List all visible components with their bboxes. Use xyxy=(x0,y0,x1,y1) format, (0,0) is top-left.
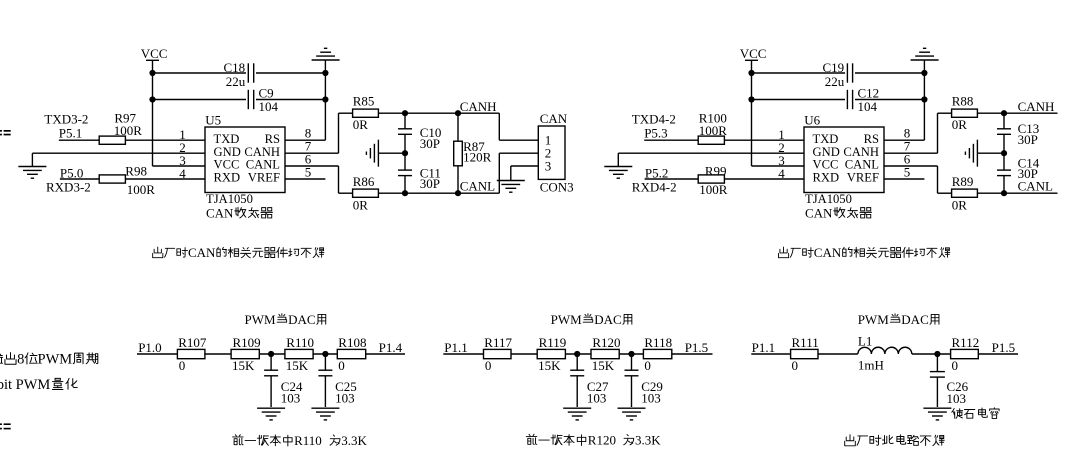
svg-text:DAC: DAC xyxy=(288,312,315,327)
junction xyxy=(748,70,754,76)
wire RXD input (pin 4) xyxy=(645,178,804,180)
ground xyxy=(563,408,591,420)
svg-text:DAC: DAC xyxy=(901,312,928,327)
svg-text:15K: 15K xyxy=(286,358,309,373)
svg-text:VCC: VCC xyxy=(214,158,240,172)
capacitor C12 xyxy=(845,86,879,114)
svg-text:TXD4-2: TXD4-2 xyxy=(632,112,676,127)
capacitor C27 xyxy=(570,354,609,407)
inductor L1 xyxy=(858,333,912,372)
wire CANL (pin 6) xyxy=(884,166,952,193)
ground xyxy=(311,408,339,420)
wire VCC to C9 xyxy=(752,99,848,101)
svg-text:R112: R112 xyxy=(952,335,980,350)
capacitor C25 xyxy=(318,354,356,407)
resistor R86 xyxy=(353,174,379,212)
svg-text:0R: 0R xyxy=(952,197,968,212)
svg-text:RXD3-2: RXD3-2 xyxy=(46,180,91,195)
svg-text:100R: 100R xyxy=(699,123,728,138)
node CANL xyxy=(460,179,495,194)
svg-text:R99: R99 xyxy=(705,163,727,178)
junction xyxy=(149,70,155,76)
resistor R88 xyxy=(952,94,978,133)
wire GND (pin 2) xyxy=(618,153,804,166)
junction xyxy=(1001,110,1007,116)
svg-text:120R: 120R xyxy=(463,149,492,164)
capacitor C11 xyxy=(398,165,441,191)
resistor R100 xyxy=(698,110,727,144)
svg-text:VCC: VCC xyxy=(740,46,767,61)
node RXD4-2 xyxy=(632,165,677,194)
svg-text:R118: R118 xyxy=(644,335,672,350)
svg-text:P1.5: P1.5 xyxy=(685,340,708,355)
capacitor C19 xyxy=(823,60,856,89)
wire VCC to C18/C9 rail top xyxy=(752,72,848,74)
svg-text:104: 104 xyxy=(259,99,279,114)
svg-text:1mH: 1mH xyxy=(858,357,884,372)
junction xyxy=(322,70,328,76)
power VCC xyxy=(141,46,168,61)
power VCC xyxy=(740,46,767,61)
resistor R89 xyxy=(952,174,978,212)
ground xyxy=(923,408,951,420)
svg-text:30P: 30P xyxy=(1018,132,1038,147)
svg-text:R107: R107 xyxy=(178,335,207,350)
svg-text:CANL: CANL xyxy=(460,179,495,194)
wire VREF stub (pin 5) xyxy=(884,178,924,180)
clipped label: 8-bit PWM period output xyxy=(0,352,98,368)
svg-text:P1.4: P1.4 xyxy=(379,340,403,355)
svg-text:RS: RS xyxy=(864,132,879,146)
ground xyxy=(257,408,285,420)
value label TJA1050 / CAN transceiver (U6) xyxy=(805,192,871,220)
junction xyxy=(455,110,461,116)
svg-text:R85: R85 xyxy=(353,94,375,109)
node TXD4-2 xyxy=(632,112,676,141)
svg-text:C19: C19 xyxy=(823,60,845,75)
svg-text:0R: 0R xyxy=(353,197,369,212)
svg-text:CAN: CAN xyxy=(805,205,833,220)
clipped mark == xyxy=(0,130,11,135)
svg-text:4: 4 xyxy=(778,166,785,181)
svg-text:P5.3: P5.3 xyxy=(644,126,667,141)
clipped mark == (lower) xyxy=(0,423,11,429)
svg-text:15K: 15K xyxy=(538,358,561,373)
wire C18 to ground rail xyxy=(254,72,326,74)
resistor R98 xyxy=(99,163,155,197)
svg-text:C18: C18 xyxy=(224,60,246,75)
wire TXD input (pin 1) xyxy=(59,139,205,141)
note: in previous version R110 was 3.3K xyxy=(233,433,368,448)
junction xyxy=(574,351,580,357)
junction xyxy=(628,351,634,357)
ground xyxy=(911,48,939,60)
node RXD3-2 xyxy=(46,165,91,194)
svg-text:0: 0 xyxy=(485,358,492,373)
junction xyxy=(268,351,274,357)
svg-text:CANH: CANH xyxy=(460,99,497,114)
svg-text:TJA1050: TJA1050 xyxy=(206,192,253,206)
clipped label: bit PWM quantisation xyxy=(0,377,77,393)
svg-text:100R: 100R xyxy=(127,182,156,197)
junction xyxy=(921,70,927,76)
wire PWM LC filter rail xyxy=(751,353,1018,355)
wire VCC stem to pin 3 xyxy=(153,60,206,166)
wire CANL node rail xyxy=(977,192,1057,194)
capacitor C9 xyxy=(246,86,279,114)
value label TJA1050 / CAN transceiver (U5) xyxy=(206,192,272,220)
svg-text:R109: R109 xyxy=(233,335,261,350)
node P1.5 xyxy=(992,340,1015,355)
svg-text:PWM: PWM xyxy=(245,312,277,327)
svg-text:R110: R110 xyxy=(286,335,314,350)
resistor R119 xyxy=(537,335,566,373)
ground xyxy=(312,48,340,60)
wire ground rail down to pin 8 (RS) xyxy=(285,60,325,140)
wire C18 to ground rail xyxy=(853,72,925,74)
wire C9 to ground rail xyxy=(254,99,326,101)
svg-text:CAN: CAN xyxy=(814,245,842,260)
value label monolithic capacitor xyxy=(952,408,999,419)
node P1.5 xyxy=(685,340,708,355)
svg-text:0R: 0R xyxy=(353,117,369,132)
svg-text:R110: R110 xyxy=(294,433,322,448)
junction xyxy=(455,190,461,196)
svg-text:PWM: PWM xyxy=(858,312,890,327)
wire TXD input (pin 1) xyxy=(644,139,804,141)
svg-text:0: 0 xyxy=(644,358,651,373)
svg-text:R98: R98 xyxy=(125,163,147,178)
svg-text:22u: 22u xyxy=(226,74,246,89)
svg-text:P1.5: P1.5 xyxy=(992,340,1015,355)
svg-text:3: 3 xyxy=(545,159,552,174)
svg-text:P1.0: P1.0 xyxy=(138,340,161,355)
resistor R85 xyxy=(353,94,379,133)
node CANH xyxy=(460,99,497,114)
svg-text:100R: 100R xyxy=(114,123,143,138)
svg-text:103: 103 xyxy=(641,391,661,406)
resistor R112 xyxy=(951,335,980,373)
svg-text:R88: R88 xyxy=(952,94,974,109)
pin numbers 8-5 of U5 xyxy=(305,126,312,180)
junction xyxy=(1001,150,1007,156)
capacitor C24 xyxy=(264,354,303,407)
note: this circuit not soldered at factory xyxy=(845,435,945,446)
svg-text:30P: 30P xyxy=(420,176,440,191)
wire mid node to ground xyxy=(977,152,1004,154)
node P1.0 xyxy=(138,340,161,355)
junction xyxy=(1001,190,1007,196)
svg-text:U6: U6 xyxy=(804,112,820,127)
svg-text:0: 0 xyxy=(792,358,799,373)
svg-text:CANL: CANL xyxy=(1018,179,1053,194)
resistor R111 xyxy=(791,335,819,373)
title PWM as DAC xyxy=(858,312,939,327)
wire CANH to connector pin 1 xyxy=(499,113,538,140)
svg-text:103: 103 xyxy=(587,391,607,406)
svg-text:P5.0: P5.0 xyxy=(60,165,83,180)
wire CANL to connector pin 2 xyxy=(499,153,538,193)
wire PWM filter rail xyxy=(443,353,712,355)
pin numbers 1-4 of U5 xyxy=(179,127,186,181)
svg-text:PWM: PWM xyxy=(551,312,583,327)
connector CON3 xyxy=(538,111,573,195)
svg-text:TXD: TXD xyxy=(214,132,240,146)
wire VCC stem to pin 3 xyxy=(752,60,805,166)
svg-text:0: 0 xyxy=(179,358,186,373)
svg-text:104: 104 xyxy=(858,99,878,114)
wire CANH node rail xyxy=(378,112,499,114)
svg-text:0: 0 xyxy=(952,358,959,373)
svg-text:R120: R120 xyxy=(588,433,616,448)
svg-text:P5.2: P5.2 xyxy=(645,165,668,180)
svg-text:0: 0 xyxy=(338,358,345,373)
svg-text:RXD4-2: RXD4-2 xyxy=(632,180,677,195)
svg-text:TXD3-2: TXD3-2 xyxy=(44,112,88,127)
resistor R97 xyxy=(99,110,142,144)
wire VCC to C18/C9 rail top xyxy=(153,72,249,74)
wire filter cap column xyxy=(404,113,406,193)
wire CANH (pin 7) xyxy=(884,113,952,153)
svg-text:P5.1: P5.1 xyxy=(59,126,82,141)
wire CANL (pin 6) xyxy=(285,166,353,193)
junction xyxy=(322,351,328,357)
svg-text:RXD: RXD xyxy=(214,171,241,185)
junction xyxy=(402,190,408,196)
wire CANH (pin 7) xyxy=(285,113,353,153)
ground xyxy=(18,167,46,179)
wire connector pin 3 to ground xyxy=(511,166,539,180)
wire CANH node rail xyxy=(977,112,1057,114)
svg-text:103: 103 xyxy=(335,391,355,406)
capacitor C10 xyxy=(398,125,441,151)
svg-text:3.3K: 3.3K xyxy=(341,433,367,448)
node TXD3-2 xyxy=(44,112,88,141)
svg-text:CAN: CAN xyxy=(188,245,216,260)
capacitor C18 xyxy=(224,60,257,89)
svg-text:VREF: VREF xyxy=(248,171,280,185)
svg-text:CAN: CAN xyxy=(206,205,234,220)
svg-text:103: 103 xyxy=(947,391,967,406)
node CANH xyxy=(1018,99,1055,114)
wire GND (pin 2) xyxy=(32,153,205,166)
junction xyxy=(149,96,155,102)
svg-text:R119: R119 xyxy=(539,335,567,350)
junction xyxy=(402,110,408,116)
svg-text:P1.1: P1.1 xyxy=(752,340,775,355)
svg-text:CAN: CAN xyxy=(540,111,568,126)
svg-text:100R: 100R xyxy=(699,182,728,197)
junction xyxy=(322,96,328,102)
svg-text:5: 5 xyxy=(305,165,312,180)
node P1.4 xyxy=(379,340,403,355)
svg-text:8: 8 xyxy=(17,352,24,368)
ground xyxy=(366,140,378,167)
svg-text:VREF: VREF xyxy=(847,171,879,185)
wire RXD input (pin 4) xyxy=(60,178,205,180)
wire PWM filter rail xyxy=(137,353,405,355)
svg-text:R117: R117 xyxy=(484,335,512,350)
capacitor C14 xyxy=(997,155,1040,181)
note: in previous version R120 was 3.3K xyxy=(526,433,661,448)
note: CAN components not soldered at factory (left) xyxy=(153,245,324,260)
svg-text:L1: L1 xyxy=(858,333,872,348)
ground xyxy=(618,408,646,420)
svg-text:30P: 30P xyxy=(420,136,440,151)
svg-text:R89: R89 xyxy=(952,174,974,189)
svg-text:RS: RS xyxy=(265,132,280,146)
ground xyxy=(497,181,525,193)
resistor R99 xyxy=(698,163,728,197)
svg-text:4: 4 xyxy=(179,166,186,181)
junction xyxy=(748,96,754,102)
svg-text:CON3: CON3 xyxy=(540,180,574,195)
wire C9 to ground rail xyxy=(853,99,925,101)
capacitor C29 xyxy=(625,354,663,407)
svg-text:15K: 15K xyxy=(592,358,615,373)
junction xyxy=(921,96,927,102)
svg-text:3.3K: 3.3K xyxy=(635,433,661,448)
resistor R117 xyxy=(484,335,513,373)
note: CAN components not soldered at factory (right) xyxy=(778,245,949,260)
ground xyxy=(604,167,632,179)
svg-text:TXD: TXD xyxy=(813,132,839,146)
svg-text:CANL: CANL xyxy=(246,158,280,172)
svg-text:VCC: VCC xyxy=(141,46,168,61)
svg-text:PWM: PWM xyxy=(38,352,73,368)
svg-text:103: 103 xyxy=(281,391,301,406)
svg-text:TJA1050: TJA1050 xyxy=(805,192,852,206)
svg-text:CANH: CANH xyxy=(1018,99,1055,114)
svg-text:U5: U5 xyxy=(205,112,221,127)
svg-text:22u: 22u xyxy=(825,74,845,89)
node P1.1 xyxy=(444,340,467,355)
wire VCC to C9 xyxy=(153,99,249,101)
resistor R87 xyxy=(454,113,492,193)
junction xyxy=(934,351,940,357)
svg-text:R108: R108 xyxy=(338,335,366,350)
svg-text:15K: 15K xyxy=(232,358,255,373)
svg-text:0R: 0R xyxy=(952,117,968,132)
junction xyxy=(402,150,408,156)
pin numbers 1-4 of U6 xyxy=(778,127,785,181)
wire mid node to ground xyxy=(378,152,405,154)
svg-text:VCC: VCC xyxy=(813,158,839,172)
title PWM as DAC xyxy=(245,312,326,327)
resistor R110 xyxy=(285,335,314,373)
svg-text:R120: R120 xyxy=(592,335,620,350)
IC U5 TJA1050 xyxy=(205,112,285,192)
pin numbers 8-5 of U6 xyxy=(904,126,911,180)
capacitor C26 xyxy=(930,354,969,407)
resistor R118 xyxy=(643,335,672,373)
svg-text:R111: R111 xyxy=(792,335,819,350)
capacitor C13 xyxy=(997,121,1039,147)
svg-text:DAC: DAC xyxy=(594,312,621,327)
wire filter cap column xyxy=(1003,113,1005,193)
svg-text:RXD: RXD xyxy=(813,171,840,185)
wire CANL node rail xyxy=(378,192,499,194)
svg-text:8bit PWM: 8bit PWM xyxy=(0,377,50,393)
svg-text:R86: R86 xyxy=(353,174,375,189)
svg-text:P1.1: P1.1 xyxy=(444,340,467,355)
svg-text:CANL: CANL xyxy=(845,158,879,172)
wire ground rail down to pin 8 (RS) xyxy=(884,60,924,140)
IC U6 TJA1050 xyxy=(804,112,884,192)
svg-text:5: 5 xyxy=(904,165,911,180)
resistor R108 xyxy=(337,335,366,373)
node CANL xyxy=(1018,179,1053,194)
ground xyxy=(965,140,977,167)
wire VREF stub (pin 5) xyxy=(285,178,325,180)
resistor R120 xyxy=(591,335,621,373)
resistor R109 xyxy=(231,335,261,373)
node P1.1 xyxy=(752,340,775,355)
title PWM as DAC xyxy=(551,312,632,327)
resistor R107 xyxy=(177,335,206,373)
